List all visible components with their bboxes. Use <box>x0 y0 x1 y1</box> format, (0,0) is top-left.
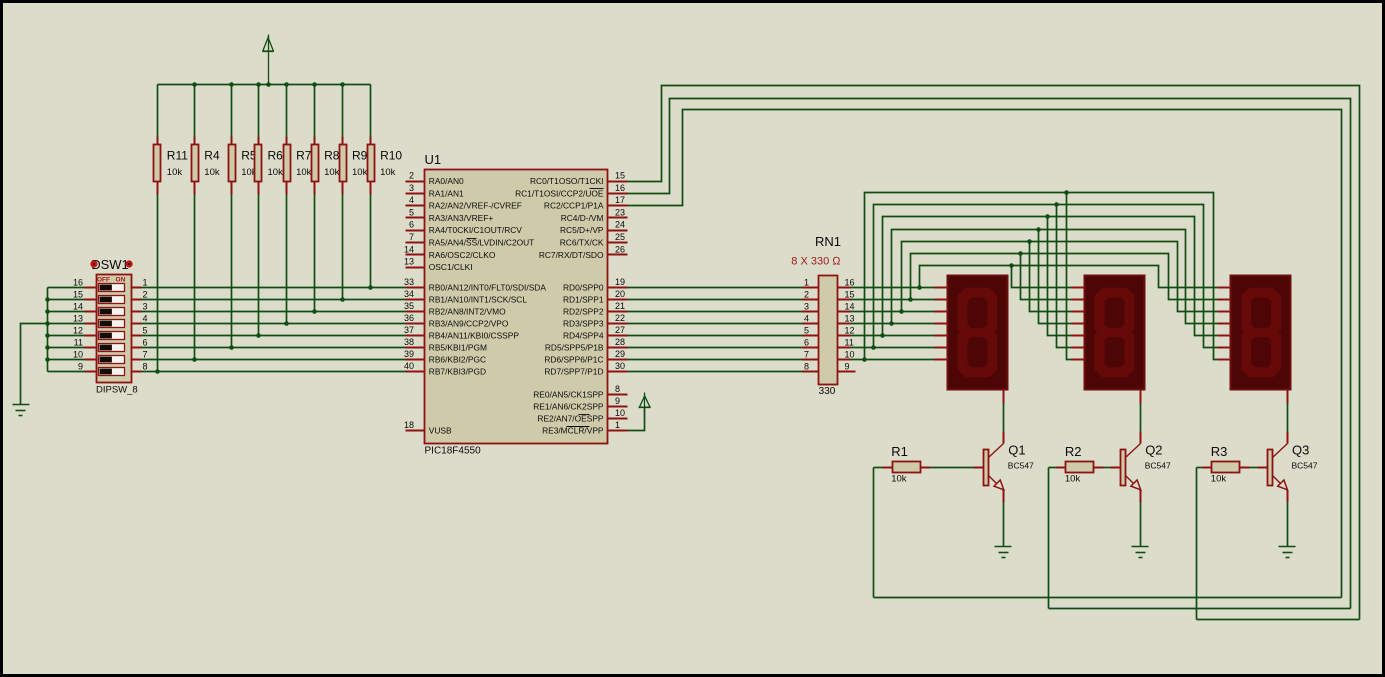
svg-text:23: 23 <box>615 207 625 217</box>
svg-text:22: 22 <box>615 313 625 323</box>
svg-text:20: 20 <box>615 289 625 299</box>
svg-text:37: 37 <box>404 325 414 335</box>
svg-text:7: 7 <box>804 350 809 360</box>
svg-text:RC7/RX/DT/SDO: RC7/RX/DT/SDO <box>539 250 604 260</box>
svg-text:10k: 10k <box>1065 474 1081 485</box>
svg-text:RC5/D+/VP: RC5/D+/VP <box>560 225 604 235</box>
svg-text:R1: R1 <box>891 444 908 459</box>
svg-text:6: 6 <box>409 220 414 230</box>
svg-text:15: 15 <box>845 290 855 300</box>
svg-text:10: 10 <box>73 350 83 360</box>
svg-text:RD3/SPP3: RD3/SPP3 <box>563 319 604 329</box>
svg-text:11: 11 <box>74 338 83 348</box>
svg-text:2: 2 <box>409 171 414 181</box>
svg-text:3: 3 <box>143 302 148 312</box>
svg-text:RB2/AN8/INT2/VMO: RB2/AN8/INT2/VMO <box>429 307 506 317</box>
svg-text:RB7/KBI3/PGD: RB7/KBI3/PGD <box>429 367 486 377</box>
svg-text:18: 18 <box>404 420 414 430</box>
svg-text:7: 7 <box>143 350 148 360</box>
svg-text:38: 38 <box>404 337 414 347</box>
svg-text:10: 10 <box>615 408 625 418</box>
svg-text:33: 33 <box>404 277 414 287</box>
svg-text:13: 13 <box>845 314 855 324</box>
svg-text:8: 8 <box>143 362 148 372</box>
svg-text:RN1: RN1 <box>815 234 841 249</box>
svg-text:9: 9 <box>845 362 850 372</box>
svg-text:11: 11 <box>845 338 854 348</box>
svg-text:R6: R6 <box>268 149 284 163</box>
svg-text:3: 3 <box>804 302 809 312</box>
svg-text:30: 30 <box>615 361 625 371</box>
svg-text:9: 9 <box>615 396 620 406</box>
svg-text:RE3/MCLR/VPP: RE3/MCLR/VPP <box>542 426 604 436</box>
svg-text:4: 4 <box>804 314 809 324</box>
svg-text:RB0/AN12/INT0/FLT0/SDI/SDA: RB0/AN12/INT0/FLT0/SDI/SDA <box>429 283 547 293</box>
svg-text:10k: 10k <box>1211 474 1227 485</box>
svg-text:RA1/AN1: RA1/AN1 <box>429 188 464 198</box>
svg-text:RB6/KBI2/PGC: RB6/KBI2/PGC <box>429 355 486 365</box>
svg-text:24: 24 <box>615 220 625 230</box>
svg-text:3: 3 <box>409 183 414 193</box>
svg-text:8 X 330 Ω: 8 X 330 Ω <box>791 256 841 268</box>
svg-text:14: 14 <box>404 244 414 254</box>
svg-text:28: 28 <box>615 337 625 347</box>
svg-text:15: 15 <box>73 290 83 300</box>
svg-text:29: 29 <box>615 349 625 359</box>
svg-text:12: 12 <box>845 326 855 336</box>
svg-text:5: 5 <box>143 326 148 336</box>
svg-text:14: 14 <box>845 302 855 312</box>
svg-text:RA0/AN0: RA0/AN0 <box>429 176 464 186</box>
svg-text:RB4/AN11/KBI0/CSSPP: RB4/AN11/KBI0/CSSPP <box>429 331 520 341</box>
svg-text:RD1/SPP1: RD1/SPP1 <box>563 295 604 305</box>
svg-text:RA6/OSC2/CLKO: RA6/OSC2/CLKO <box>429 250 496 260</box>
svg-text:34: 34 <box>404 289 414 299</box>
svg-text:7: 7 <box>409 232 414 242</box>
svg-text:25: 25 <box>615 232 625 242</box>
svg-text:OSC1/CLKI: OSC1/CLKI <box>429 262 473 272</box>
svg-text:RD0/SPP0: RD0/SPP0 <box>563 283 604 293</box>
svg-text:RA5/AN4/SS/LVDIN/C2OUT: RA5/AN4/SS/LVDIN/C2OUT <box>429 238 535 248</box>
svg-text:39: 39 <box>404 349 414 359</box>
svg-text:8: 8 <box>615 384 620 394</box>
svg-text:8: 8 <box>804 362 809 372</box>
svg-text:13: 13 <box>73 314 83 324</box>
svg-text:10k: 10k <box>167 167 183 178</box>
svg-text:330: 330 <box>819 386 836 397</box>
svg-text:6: 6 <box>143 338 148 348</box>
svg-text:U1: U1 <box>425 152 442 167</box>
svg-text:5: 5 <box>409 207 414 217</box>
svg-text:DIPSW_8: DIPSW_8 <box>96 385 138 396</box>
svg-text:R3: R3 <box>1211 444 1228 459</box>
svg-text:R8: R8 <box>324 149 340 163</box>
svg-text:12: 12 <box>73 326 83 336</box>
svg-text:17: 17 <box>615 195 625 205</box>
svg-text:R2: R2 <box>1065 444 1082 459</box>
svg-text:36: 36 <box>404 313 414 323</box>
svg-text:10k: 10k <box>380 167 396 178</box>
svg-text:1: 1 <box>615 420 620 430</box>
svg-text:ON: ON <box>116 276 126 283</box>
svg-text:15: 15 <box>615 171 625 181</box>
svg-text:10k: 10k <box>324 167 340 178</box>
svg-text:RC6/TX/CK: RC6/TX/CK <box>560 238 604 248</box>
svg-text:RB3/AN9/CCP2/VPO: RB3/AN9/CCP2/VPO <box>429 319 509 329</box>
svg-text:4: 4 <box>143 314 148 324</box>
svg-text:2: 2 <box>804 290 809 300</box>
svg-text:13: 13 <box>404 257 414 267</box>
svg-text:16: 16 <box>615 183 625 193</box>
svg-text:RC4/D-/VM: RC4/D-/VM <box>561 213 604 223</box>
svg-text:RE2/AN7/OESPP: RE2/AN7/OESPP <box>537 414 604 424</box>
svg-text:RB1/AN10/INT1/SCK/SCL: RB1/AN10/INT1/SCK/SCL <box>429 295 528 305</box>
svg-text:9: 9 <box>78 362 83 372</box>
svg-text:R7: R7 <box>296 149 312 163</box>
svg-text:RC1/T1OSI/CCP2/UOE: RC1/T1OSI/CCP2/UOE <box>515 188 604 198</box>
svg-text:PIC18F4550: PIC18F4550 <box>425 446 482 457</box>
svg-text:RD6/SPP6/P1C: RD6/SPP6/P1C <box>544 355 603 365</box>
svg-text:Q1: Q1 <box>1008 443 1025 458</box>
svg-text:Q3: Q3 <box>1292 443 1309 458</box>
svg-text:R11: R11 <box>167 149 188 163</box>
svg-text:10k: 10k <box>268 167 284 178</box>
svg-text:RD2/SPP2: RD2/SPP2 <box>563 307 604 317</box>
svg-text:1: 1 <box>143 278 148 288</box>
svg-text:21: 21 <box>615 301 625 311</box>
svg-text:16: 16 <box>845 278 855 288</box>
svg-text:R9: R9 <box>352 149 368 163</box>
svg-text:RB5/KBI1/PGM: RB5/KBI1/PGM <box>429 343 487 353</box>
svg-text:RE0/AN5/CK1SPP: RE0/AN5/CK1SPP <box>533 390 604 400</box>
svg-text:BC547: BC547 <box>1145 461 1171 471</box>
svg-text:26: 26 <box>615 244 625 254</box>
svg-text:RD4/SPP4: RD4/SPP4 <box>563 331 604 341</box>
svg-text:VUSB: VUSB <box>429 426 452 436</box>
svg-text:BC547: BC547 <box>1292 461 1318 471</box>
svg-text:RA2/AN2/VREF-/CVREF: RA2/AN2/VREF-/CVREF <box>429 201 522 211</box>
svg-text:5: 5 <box>804 326 809 336</box>
svg-text:35: 35 <box>404 301 414 311</box>
svg-text:19: 19 <box>615 277 625 287</box>
svg-text:RC0/T1OSO/T1CKI: RC0/T1OSO/T1CKI <box>530 176 604 186</box>
svg-text:1: 1 <box>804 278 809 288</box>
svg-text:14: 14 <box>73 302 83 312</box>
svg-text:10k: 10k <box>296 167 312 178</box>
svg-text:6: 6 <box>804 338 809 348</box>
svg-text:R10: R10 <box>380 149 402 163</box>
svg-text:RD5/SPP5/P1B: RD5/SPP5/P1B <box>545 343 604 353</box>
svg-text:4: 4 <box>409 195 414 205</box>
svg-text:16: 16 <box>73 278 83 288</box>
svg-text:RA4/T0CKI/C1OUT/RCV: RA4/T0CKI/C1OUT/RCV <box>429 225 522 235</box>
svg-text:2: 2 <box>143 290 148 300</box>
svg-text:OFF: OFF <box>97 276 110 283</box>
svg-text:RC2/CCP1/P1A: RC2/CCP1/P1A <box>544 201 604 211</box>
svg-text:Q2: Q2 <box>1145 443 1162 458</box>
svg-text:BC547: BC547 <box>1008 461 1034 471</box>
svg-text:40: 40 <box>404 361 414 371</box>
svg-text:RA3/AN3/VREF+: RA3/AN3/VREF+ <box>429 213 494 223</box>
svg-text:27: 27 <box>615 325 625 335</box>
svg-text:RD7/SPP7/P1D: RD7/SPP7/P1D <box>544 367 603 377</box>
svg-text:10k: 10k <box>891 474 907 485</box>
svg-text:10k: 10k <box>204 167 220 178</box>
svg-text:10: 10 <box>845 350 855 360</box>
svg-text:R4: R4 <box>204 149 220 163</box>
svg-text:RE1/AN6/CK2SPP: RE1/AN6/CK2SPP <box>533 402 604 412</box>
svg-text:10k: 10k <box>352 167 368 178</box>
